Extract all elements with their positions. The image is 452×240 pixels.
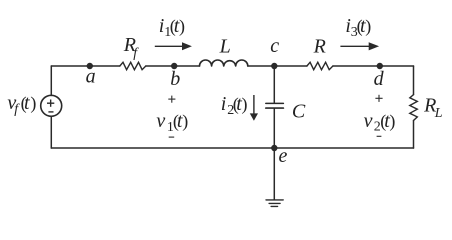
svg-text:): ) <box>182 111 188 132</box>
svg-text:a: a <box>86 66 96 88</box>
svg-text:d: d <box>374 68 385 90</box>
svg-text:e: e <box>279 145 288 167</box>
svg-text:i: i <box>221 93 227 115</box>
svg-text:L: L <box>434 106 443 121</box>
svg-text:): ) <box>179 16 185 37</box>
svg-text:R: R <box>313 36 326 58</box>
svg-text:): ) <box>365 16 371 37</box>
svg-text:c: c <box>270 35 279 57</box>
svg-text:b: b <box>170 68 180 90</box>
svg-text:L: L <box>219 36 231 58</box>
svg-text:C: C <box>292 100 306 122</box>
svg-text:v: v <box>156 110 165 132</box>
svg-text:): ) <box>389 111 395 132</box>
svg-text:): ) <box>30 93 36 114</box>
svg-text:t: t <box>24 92 30 114</box>
svg-text:v: v <box>364 110 373 132</box>
svg-text:): ) <box>242 94 248 115</box>
